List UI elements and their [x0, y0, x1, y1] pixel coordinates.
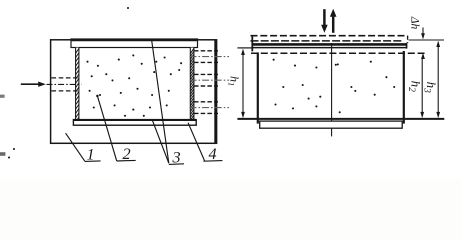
raised lid top (dashed) [251, 36, 408, 43]
label h3 [422, 82, 439, 94]
outlet pipe 1 [190, 51, 230, 63]
label h2 [406, 81, 423, 93]
svg-text:3: 3 [172, 149, 181, 167]
label delta-h [408, 16, 420, 30]
leader line 4 [188, 123, 205, 161]
h1 top extension line [237, 47, 252, 49]
lid left edge [251, 36, 253, 52]
outer mold box [51, 40, 217, 144]
label 1 underline [85, 160, 101, 163]
leader line 3 (from bottom bar) [152, 120, 169, 163]
dimension h2 line [420, 57, 424, 118]
dimension h3 line [436, 41, 440, 119]
lid plate [71, 39, 198, 48]
inlet pipe centerline [47, 83, 82, 85]
lid plate (solid) [252, 43, 406, 49]
dimension delta-h arrows [421, 28, 425, 60]
raised lid bottom (dashed) [251, 40, 403, 42]
svg-text:1: 1 [87, 146, 95, 164]
leader line 3 (from lid) [152, 40, 169, 163]
outlet pipe 2 [190, 74, 230, 86]
container bottom / extension line [237, 118, 444, 120]
svg-text:4: 4 [208, 145, 216, 163]
granular material speckles (left crucible) [8, 7, 182, 159]
leader line 1 [66, 133, 85, 161]
inlet pipe dashed walls [52, 78, 80, 91]
crucible bottom bar [73, 120, 196, 126]
outer box right wall (thick) [214, 40, 216, 143]
lowered lid level (dashed) [251, 52, 426, 54]
leader line 2 with dot [96, 95, 117, 161]
svg-text:2: 2 [122, 145, 130, 163]
label 3 underline [169, 163, 184, 166]
container right wall [403, 51, 405, 124]
scan edge artifacts [0, 95, 5, 156]
container left wall [257, 52, 259, 123]
return up arrow [330, 9, 337, 33]
svg-text:Δh: Δh [408, 16, 420, 30]
inlet flow arrow [21, 82, 46, 87]
crucible left wall (hatched) [76, 48, 79, 122]
crucible right wall (hatched) [190, 48, 194, 123]
label h1 [226, 76, 241, 86]
label 2 underline [117, 159, 136, 162]
center line [331, 43, 333, 136]
delta-h top extension line [409, 39, 444, 41]
press down arrow [321, 9, 328, 33]
base plate [260, 121, 403, 128]
outlet pipe 3 [190, 102, 230, 114]
label 4 underline [203, 160, 222, 163]
granular speckles (right container) [273, 59, 396, 114]
dimension h1 line [241, 49, 245, 119]
